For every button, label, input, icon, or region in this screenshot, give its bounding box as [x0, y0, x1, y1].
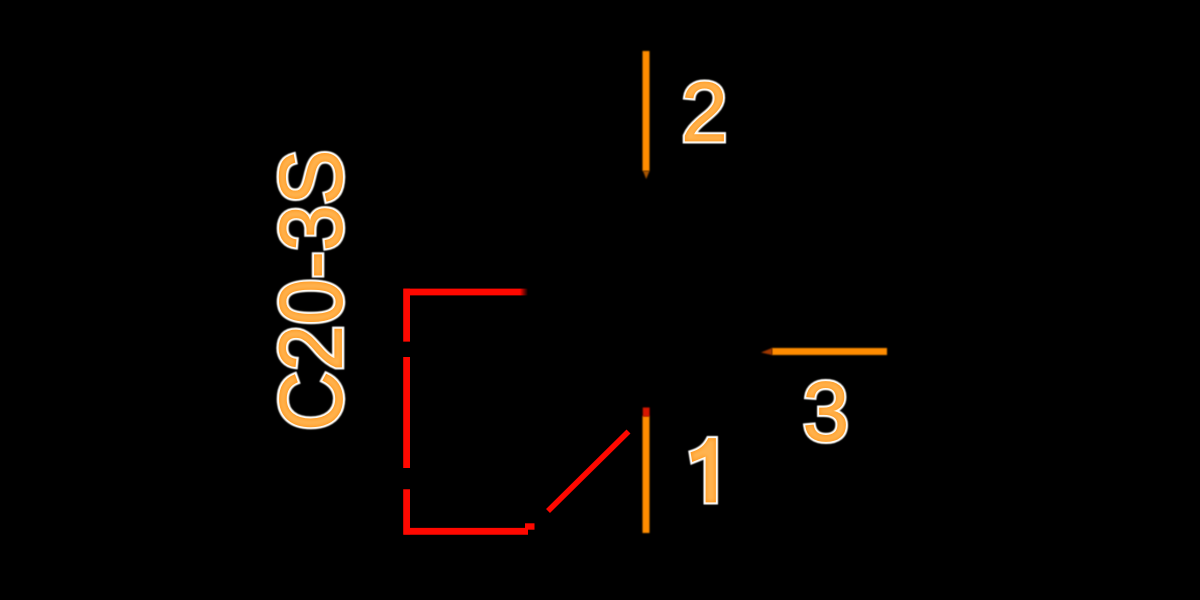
svg-text:C20-3S: C20-3S — [262, 150, 362, 431]
svg-text:3: 3 — [803, 365, 850, 459]
svg-text:2: 2 — [681, 65, 728, 159]
